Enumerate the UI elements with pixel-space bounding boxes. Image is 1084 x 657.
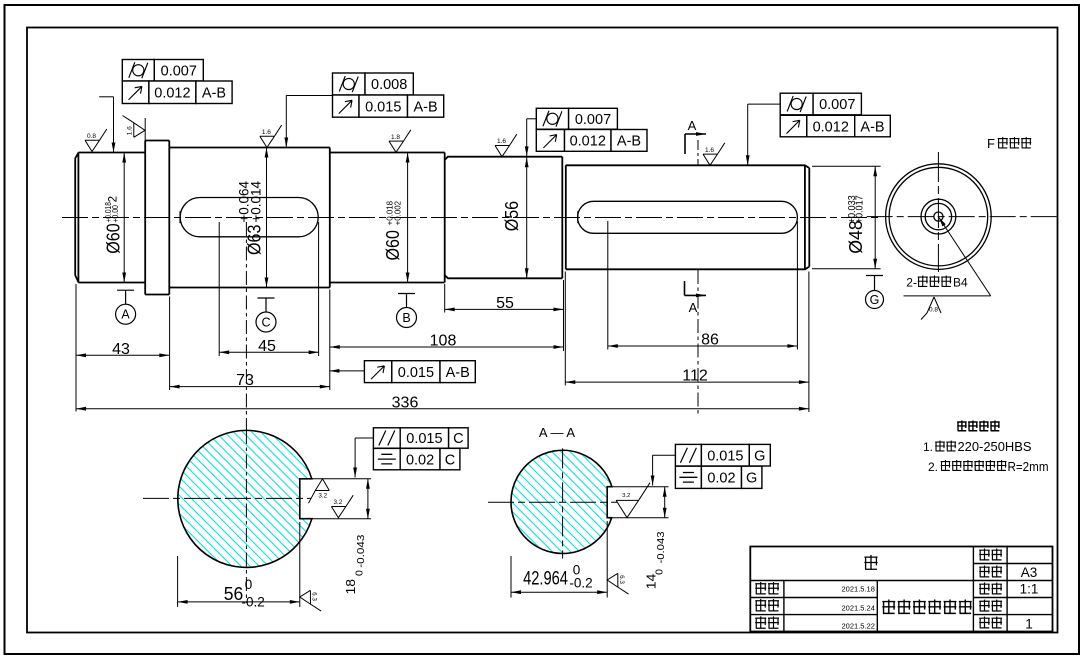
datum G [866,276,884,309]
svg-text:B4: B4 [953,276,968,290]
svg-text:Ø48: Ø48 [846,220,866,254]
roughness 1.6 on section C [260,125,282,148]
svg-text:1.6: 1.6 [497,138,506,145]
svg-text:G: G [870,293,880,307]
svg-text:C: C [453,431,463,447]
company name [882,600,971,615]
svg-text:0.8: 0.8 [929,307,938,314]
svg-text:0.02: 0.02 [406,452,434,468]
svg-text:0: 0 [654,569,666,575]
feature control frame cylindricity 0.008 / runout 0.015 A-B [284,73,443,148]
svg-text:F: F [987,136,995,151]
svg-text:0.012: 0.012 [813,119,849,135]
svg-text:2: 2 [107,196,119,202]
svg-text:0.007: 0.007 [575,112,611,128]
svg-text:0.015: 0.015 [398,365,434,381]
svg-text:0: 0 [245,577,253,592]
svg-text:A-B: A-B [617,134,641,150]
svg-text:86: 86 [701,332,719,349]
feature control frame cylindricity 0.007 / runout 0.012 A-B (middle) [527,108,647,151]
dimension 108 [330,333,564,350]
roughness 0.8 under F view [921,297,941,320]
cutting plane line C section [245,222,247,430]
dimension 45 [219,338,318,355]
svg-text:108: 108 [430,333,457,350]
keyway slot in section d48 [578,201,798,233]
roughness 6.3 on C-C dimension [300,590,321,611]
svg-text:0.8: 0.8 [87,133,96,140]
svg-text:42.964: 42.964 [523,569,568,590]
dimension 112 [565,368,809,385]
title block designer rows [755,582,875,630]
svg-text:-0.043: -0.043 [655,531,667,563]
datum B [397,294,417,328]
svg-text:336: 336 [392,394,419,411]
svg-text:0.007: 0.007 [161,63,197,79]
F view concentric circles [886,164,992,270]
svg-text:0.012: 0.012 [154,85,190,101]
svg-text:0.012: 0.012 [570,134,606,150]
svg-text:0.015: 0.015 [365,99,401,115]
svg-text:G: G [754,448,765,464]
svg-text:-0.2: -0.2 [569,576,592,591]
svg-text:C: C [261,316,270,330]
svg-text:112: 112 [682,368,708,385]
svg-text:1.: 1. [923,440,933,454]
section C-C hatched circle with keyway [178,430,312,567]
svg-text:43: 43 [112,341,130,358]
title block part name [864,555,877,570]
svg-text:14: 14 [643,574,658,590]
svg-text:3.2: 3.2 [622,493,630,499]
svg-text:0.015: 0.015 [406,431,442,447]
leader of middle FCF [527,118,537,120]
svg-text:-0.043: -0.043 [355,535,367,568]
svg-text:3.2: 3.2 [318,493,327,500]
svg-text:+0.017: +0.017 [854,195,865,223]
dimension d56 [502,119,529,278]
svg-text:+0.014: +0.014 [248,180,263,222]
parallelism 0.015 G / symmetry 0.02 G frame [651,444,771,488]
F view centerlines [867,216,1057,218]
dimension d60 section B [383,153,410,283]
svg-text:Ø60: Ø60 [104,223,124,253]
title block [750,547,1052,632]
leader of G FCF [653,454,676,456]
svg-text:A-B: A-B [414,99,438,115]
svg-text:55: 55 [496,295,514,312]
svg-text:2021.5.18: 2021.5.18 [842,585,875,594]
svg-text:G: G [746,471,757,487]
roughness 0.8 on section A [85,129,107,152]
keyway end tick section C [179,211,181,223]
datum A [116,290,136,324]
svg-text:A: A [121,308,130,322]
svg-text:A-B: A-B [202,85,226,101]
keyway end tick d48 section [577,211,579,223]
leader of right FCF [748,103,781,105]
dimension 14 -0.043 keyway width A-A [612,487,669,590]
svg-text:+0.00: +0.00 [110,205,120,223]
svg-text:73: 73 [236,372,254,389]
svg-text:1.8: 1.8 [391,134,400,141]
svg-text:B: B [402,311,410,325]
section A-A hatched circle with keyway [511,450,612,553]
cutting plane A-A [685,118,707,417]
extension lines for length dimensions [76,221,809,412]
svg-text:Ø60: Ø60 [383,230,403,260]
leader of left FCF [99,96,113,98]
svg-text:-0.2: -0.2 [242,594,265,609]
svg-text:1.6: 1.6 [262,129,271,136]
roughness 3.2 bottom of keyway C-C [331,495,353,518]
svg-text:A-B: A-B [446,365,470,381]
section C-C centerline vertical [245,430,247,603]
svg-text:0.008: 0.008 [371,77,407,93]
svg-text:A-B: A-B [860,119,884,135]
dimension 42.964 -0.2 of section A-A [511,521,607,598]
svg-text:C: C [445,452,455,468]
svg-text:6.3: 6.3 [618,575,625,584]
section A-A centerlines [488,501,618,503]
dimension 56 -0.2 of section C-C [178,522,300,609]
svg-text:3.2: 3.2 [334,499,343,506]
svg-text:0.007: 0.007 [819,97,855,113]
svg-text:A3: A3 [1021,565,1038,580]
svg-text:1:1: 1:1 [1020,582,1039,597]
svg-text:Ø56: Ø56 [502,201,522,231]
dimension d63 section C [236,148,268,288]
keyway slot in section C [180,198,318,237]
leader of C FCF [355,437,373,439]
svg-text:45: 45 [258,338,276,355]
dimension 43 [76,341,169,358]
svg-text:1.6: 1.6 [705,147,714,154]
roughness 1.6 on d48 [703,143,725,166]
svg-text:A — A: A — A [539,425,575,440]
feature control frame cylindricity 0.007 / runout 0.012 A-B (left) [99,60,232,153]
dimension 336 [76,394,809,411]
dimension 18 -0.043 keyway width C-C [312,479,371,595]
roughness 3.2 top of keyway C-C [309,479,330,503]
roughness 1.8 on section B [389,130,411,153]
roughness 6.3 on A-A dimension [607,573,628,594]
roughness 1.6 on collar face [123,116,146,141]
svg-text:0: 0 [353,570,365,576]
leader arrow of runout 0.015 FCF [329,370,364,372]
leader of FCF 0.008 [286,95,332,97]
svg-text:Ø63: Ø63 [244,225,264,255]
title block right labels [979,549,1038,632]
svg-text:18: 18 [343,579,358,595]
feature control frame runout 0.015 A-B (lower middle) [329,361,475,383]
svg-text:6.3: 6.3 [311,592,318,601]
center drill callout 2-B4 [904,217,991,296]
svg-text:1: 1 [1025,617,1033,632]
main centerline [62,217,878,219]
roughness 3.2 in A-A keyway [616,483,650,518]
shaft outline main view [75,141,809,295]
svg-text:2-: 2- [906,276,917,290]
roughness 1.6 on d56 [495,134,517,157]
svg-text:0.015: 0.015 [707,448,743,464]
technical requirements text [923,421,1049,475]
svg-text:56: 56 [224,584,244,604]
feature control frame cylindricity 0.007 / runout 0.012 A-B (right) [746,93,891,165]
dimension d48 with extension lines [812,166,881,268]
svg-text:2021.5.24: 2021.5.24 [842,604,875,613]
svg-text:0.02: 0.02 [707,471,735,487]
datum C [256,298,276,332]
svg-text:A: A [688,118,697,133]
section C-C centerline horizontal [143,497,311,499]
svg-text:+0.002: +0.002 [392,201,402,226]
svg-text:1.6: 1.6 [127,126,134,135]
dimension 55 [445,295,564,312]
svg-text:2021.5.22: 2021.5.22 [842,621,875,630]
parallelism 0.015 C / symmetry 0.02 C frame [353,428,468,478]
svg-text:2.: 2. [928,460,938,474]
dimension d60 section A [103,153,126,283]
dimension 86 [608,332,798,349]
dimension 73 [170,372,330,389]
svg-text:A: A [689,300,698,315]
svg-text:220-250HBS: 220-250HBS [958,440,1032,454]
svg-text:R=2mm: R=2mm [1008,460,1049,474]
